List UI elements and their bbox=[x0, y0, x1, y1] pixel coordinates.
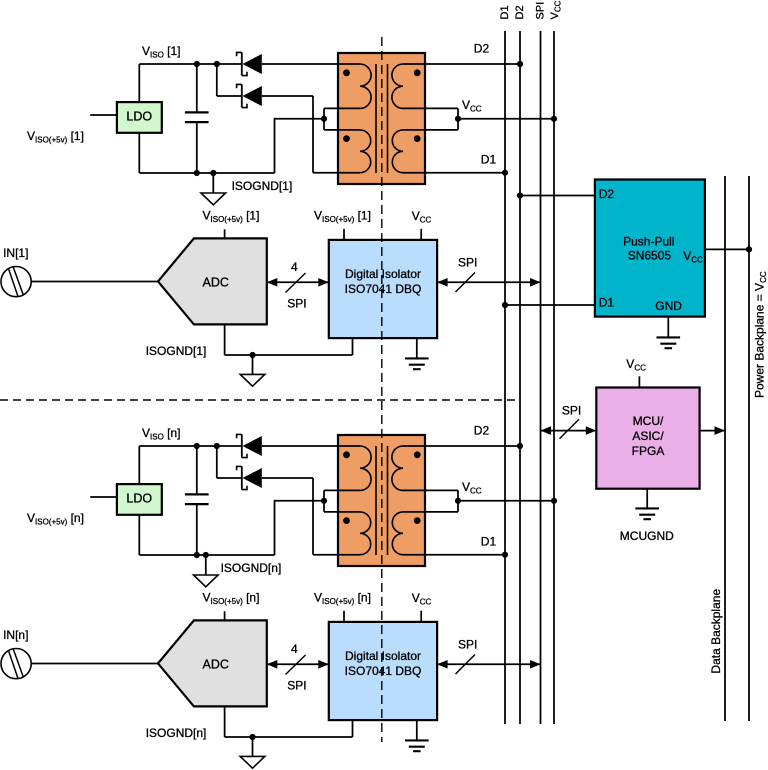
svg-text:4: 4 bbox=[291, 642, 298, 656]
svg-text:Digital Isolator: Digital Isolator bbox=[345, 267, 421, 281]
svg-text:Push-Pull: Push-Pull bbox=[623, 234, 674, 248]
svg-text:ISOGND[n]: ISOGND[n] bbox=[146, 726, 207, 740]
svg-text:GND: GND bbox=[655, 299, 682, 313]
svg-text:ISO7041 DBQ: ISO7041 DBQ bbox=[345, 282, 422, 296]
svg-text:SPI: SPI bbox=[458, 638, 477, 652]
svg-text:ADC: ADC bbox=[203, 658, 229, 672]
svg-text:IN[n]: IN[n] bbox=[3, 628, 28, 642]
svg-text:ASIC/: ASIC/ bbox=[632, 429, 664, 443]
svg-text:D1: D1 bbox=[481, 153, 497, 167]
svg-text:ISOGND[1]: ISOGND[1] bbox=[146, 344, 207, 358]
svg-text:SPI: SPI bbox=[562, 404, 581, 418]
svg-text:ISO7041 DBQ: ISO7041 DBQ bbox=[345, 664, 422, 678]
svg-text:D2: D2 bbox=[474, 41, 490, 55]
svg-text:MCU/: MCU/ bbox=[633, 414, 664, 428]
svg-text:MCUGND: MCUGND bbox=[620, 529, 674, 543]
svg-text:Data Backplane: Data Backplane bbox=[709, 589, 723, 674]
svg-text:SPI: SPI bbox=[458, 256, 477, 270]
svg-text:ISOGND[1]: ISOGND[1] bbox=[232, 179, 293, 193]
svg-text:D1: D1 bbox=[599, 295, 615, 309]
svg-text:ISOGND[n]: ISOGND[n] bbox=[221, 561, 282, 575]
svg-text:SPI: SPI bbox=[287, 296, 306, 310]
svg-text:LDO: LDO bbox=[126, 109, 152, 123]
svg-text:D1: D1 bbox=[481, 535, 497, 549]
svg-text:Power Backplane = VCC: Power Backplane = VCC bbox=[753, 271, 768, 398]
svg-text:D1: D1 bbox=[499, 5, 511, 19]
svg-text:D2: D2 bbox=[514, 5, 526, 19]
svg-text:SPI: SPI bbox=[287, 678, 306, 692]
svg-text:D2: D2 bbox=[474, 423, 490, 437]
svg-text:Digital Isolator: Digital Isolator bbox=[345, 649, 421, 663]
svg-text:4: 4 bbox=[291, 260, 298, 274]
svg-text:LDO: LDO bbox=[126, 491, 152, 505]
svg-text:ADC: ADC bbox=[203, 276, 229, 290]
svg-text:D2: D2 bbox=[599, 187, 615, 201]
svg-text:FPGA: FPGA bbox=[632, 444, 665, 458]
svg-text:IN[1]: IN[1] bbox=[3, 246, 28, 260]
svg-text:SPI: SPI bbox=[535, 2, 547, 20]
svg-text:SN6505: SN6505 bbox=[628, 249, 672, 263]
